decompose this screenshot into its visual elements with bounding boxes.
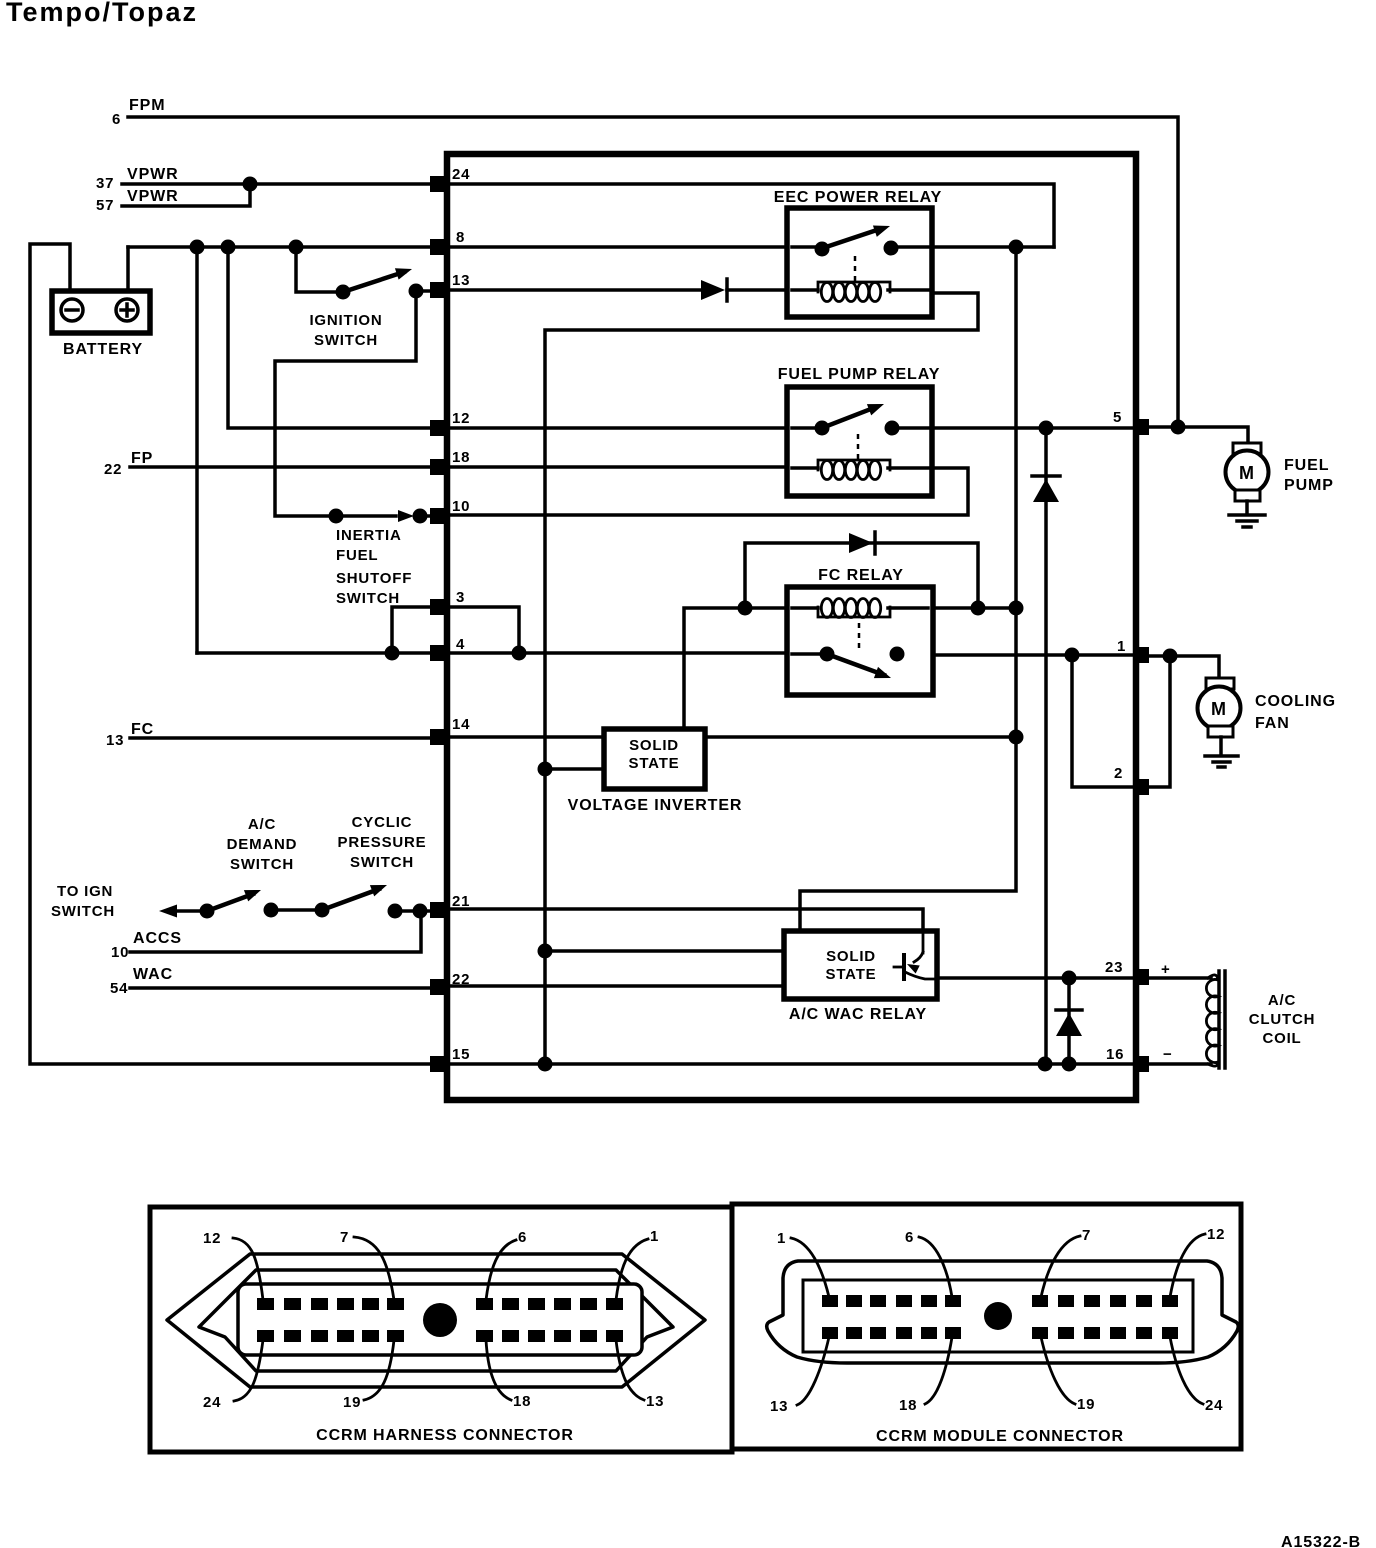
junction pin 3 right [512, 646, 527, 661]
svg-text:−: − [1163, 1046, 1173, 1063]
svg-text:A15322-B: A15322-B [1281, 1534, 1361, 1548]
svg-text:A/C: A/C [1268, 992, 1296, 1009]
wire EEC coil return loop down left bus [545, 293, 978, 1064]
contact inertia switch right [413, 509, 428, 524]
pin 13 marker [430, 282, 446, 298]
module bottom pin row 13..18 / 19..24 [822, 1327, 1178, 1339]
wire demand to cyclic switch link [271, 908, 322, 912]
harness connector outer shell [167, 1254, 705, 1387]
wire bus B switched power vertical [800, 247, 1016, 933]
wire WAC relay output to pin 23 [935, 976, 1134, 980]
harness callout pin 1 [616, 1228, 659, 1300]
svg-text:COOLING: COOLING [1255, 693, 1336, 710]
harness center post [423, 1303, 457, 1337]
junction clutch diode top [1062, 971, 1077, 986]
svg-text:ACCS: ACCS [133, 930, 182, 947]
svg-text:10: 10 [111, 944, 129, 961]
harness connector pin housing [238, 1284, 642, 1355]
svg-text:M: M [1239, 463, 1255, 483]
wire pins 3 jumper loop [392, 607, 519, 653]
svg-text:2: 2 [1114, 765, 1123, 782]
junction pin 1 outer jumper [1163, 649, 1178, 664]
svg-text:FC: FC [131, 721, 154, 738]
relay K2 fuel pump actuator link [857, 434, 860, 461]
diode D4 clutch coil flyback [1056, 1010, 1082, 1036]
label FUEL PUMP [1284, 457, 1334, 494]
junction ground row at pin5 diode [1038, 1057, 1053, 1072]
svg-text:8: 8 [456, 229, 465, 246]
relay K1 EEC actuator link [854, 256, 857, 283]
svg-text:57: 57 [96, 197, 114, 214]
svg-text:CYCLIC: CYCLIC [352, 814, 413, 831]
net label WAC 54 [110, 966, 173, 997]
net label FC 13 [106, 721, 154, 749]
label SOLID STATE WAC [826, 948, 877, 983]
label EEC POWER RELAY [774, 189, 943, 206]
label TO IGN SWITCH [51, 883, 115, 920]
svg-text:FAN: FAN [1255, 715, 1290, 732]
svg-text:SOLID: SOLID [629, 737, 679, 754]
relay box fuel pump relay [787, 387, 932, 496]
svg-text:SWITCH: SWITCH [51, 903, 115, 920]
contact fuel pump relay left [815, 421, 830, 436]
pin number 22 [452, 971, 470, 988]
module center post [984, 1302, 1012, 1330]
wire left bus stub to WAC relay [545, 949, 786, 953]
pin number 10 [452, 498, 470, 515]
pin 23 marker [1133, 969, 1149, 985]
relay K2 fuel pump switch contacts and arm [792, 398, 928, 428]
pin 21 marker [430, 902, 446, 918]
pin number 3 [456, 589, 465, 606]
junction pin 14 at bus B [1009, 730, 1024, 745]
relay K3 FC actuator link [858, 623, 861, 650]
wire pin 22 internal to WAC relay [450, 984, 786, 988]
svg-text:1: 1 [1117, 638, 1126, 655]
junction ACCS riser [413, 904, 428, 919]
junction FC diode right [971, 601, 986, 616]
svg-text:22: 22 [104, 461, 122, 478]
contact cyclic switch right [388, 904, 403, 919]
svg-text:15: 15 [452, 1046, 470, 1063]
wire pin 15 to pin 16 ground row internal [450, 1062, 1134, 1066]
diode D1 on pin 13 line [701, 279, 727, 301]
svg-text:VPWR: VPWR [127, 166, 179, 183]
pin 22 marker [430, 979, 446, 995]
svg-text:FUEL: FUEL [336, 547, 378, 564]
relay K1 EEC switch contacts and arm [792, 220, 928, 249]
wire cyclic switch to pin 21 [395, 909, 430, 913]
junction battery feed / pins 3-4 branch [190, 240, 205, 255]
label CCRM HARNESS CONNECTOR [316, 1427, 574, 1444]
TO IGN arrow [159, 905, 177, 918]
svg-text:16: 16 [1106, 1046, 1124, 1063]
svg-text:A/C WAC RELAY: A/C WAC RELAY [789, 1006, 927, 1023]
wire inertia switch gap lead [336, 514, 396, 518]
svg-text:37: 37 [96, 175, 114, 192]
junction FC diode left [738, 601, 753, 616]
ground cooling fan [1205, 756, 1238, 767]
pin number 21 [452, 893, 470, 910]
label COOLING FAN [1255, 693, 1336, 732]
wire VPWR pin 57 riser [122, 184, 250, 206]
junction FPM line at pin 5 [1171, 420, 1186, 435]
pin 10 marker [430, 508, 446, 524]
svg-text:24: 24 [1205, 1397, 1223, 1414]
svg-text:SWITCH: SWITCH [336, 590, 400, 607]
svg-text:SWITCH: SWITCH [314, 332, 378, 349]
pin number 1 [1117, 638, 1126, 655]
svg-text:M: M [1211, 699, 1227, 719]
wire voltage inverter left stub [545, 767, 605, 771]
contact demand switch right [264, 903, 279, 918]
wire ignition output down to inertia switch [275, 293, 416, 516]
pin 3 marker [430, 599, 446, 615]
wire FC relay diode loop [745, 543, 978, 609]
module callout pin 19 [1041, 1337, 1095, 1413]
contact FC relay left [820, 647, 835, 662]
harness callout pin 19 [343, 1340, 394, 1411]
wire pin 23 external to clutch coil [1148, 976, 1211, 980]
junction ignition branch [289, 240, 304, 255]
wire WAC pin 54 line to pin 22 [130, 986, 430, 990]
svg-text:SWITCH: SWITCH [350, 854, 414, 871]
svg-text:18: 18 [452, 449, 470, 466]
module callout pin 24 [1170, 1337, 1223, 1414]
svg-text:6: 6 [905, 1229, 914, 1246]
net label ACCS 10 [111, 930, 182, 961]
harness callout pin 13 [616, 1340, 664, 1410]
svg-text:STATE: STATE [826, 966, 877, 983]
harness top pin row 12..7 / 6..1 [257, 1298, 623, 1310]
diode D3 on pin 5 branch [1032, 476, 1060, 502]
module top pin row 1..6 / 7..12 [822, 1295, 1178, 1307]
junction ground row at left bus [538, 1057, 553, 1072]
harness bottom pin row 24..19 / 18..13 [257, 1330, 623, 1342]
contact EEC relay left [815, 242, 830, 257]
svg-text:13: 13 [646, 1393, 664, 1410]
contact ignition switch left [336, 285, 351, 300]
inertia switch arrow contact [398, 510, 414, 522]
wire feed down to pin 12 row [228, 247, 444, 428]
svg-text:54: 54 [110, 980, 128, 997]
junction diode branch pin 5 [1039, 421, 1054, 436]
svg-text:13: 13 [106, 732, 124, 749]
pin 2 marker [1133, 779, 1149, 795]
wire ignition switch output to pin 13 [416, 289, 430, 293]
label CYCLIC PRESSURE SWITCH [338, 814, 427, 871]
junction FC coil at bus B [1009, 601, 1024, 616]
wire battery negative loop to ground rail [30, 244, 430, 1064]
contact FC relay right [890, 647, 905, 662]
svg-text:VPWR: VPWR [127, 188, 179, 205]
svg-text:21: 21 [452, 893, 470, 910]
svg-text:12: 12 [452, 410, 470, 427]
label FUEL PUMP RELAY [778, 366, 941, 383]
contact fuel pump relay right [885, 421, 900, 436]
wire FC relay coil left to voltage inverter top [684, 608, 788, 731]
wire TO IGN lead to demand switch [175, 909, 207, 913]
svg-text:CCRM HARNESS CONNECTOR: CCRM HARNESS CONNECTOR [316, 1427, 574, 1444]
junction WAC stub [538, 944, 553, 959]
svg-text:CLUTCH: CLUTCH [1249, 1011, 1315, 1028]
net label FPM [112, 97, 165, 128]
relay K3 FC coil [792, 599, 928, 618]
label FC RELAY [818, 567, 904, 584]
label SOLID STATE inverter [629, 737, 680, 772]
svg-text:+: + [1161, 961, 1171, 978]
pin number 18 [452, 449, 470, 466]
svg-text:24: 24 [203, 1394, 221, 1411]
wire pin 8 internal row through EEC relay [450, 245, 1054, 249]
module callout pin 13 [770, 1337, 829, 1415]
pin number 13 [452, 272, 470, 289]
relay K1 EEC coil [792, 282, 928, 302]
svg-text:18: 18 [899, 1397, 917, 1414]
svg-text:COIL: COIL [1262, 1030, 1301, 1047]
contact cyclic switch left [315, 903, 330, 918]
label VOLTAGE INVERTER [568, 797, 743, 814]
pin number 5 [1113, 409, 1122, 426]
wire pin 24 internal loop to EEC output row [450, 184, 1054, 247]
ignition switch contacts and arm [343, 263, 414, 292]
module callout pin 7 [1041, 1227, 1091, 1297]
wire node A: feed down to pins 3/4 row [195, 247, 199, 653]
junction bus B top [1009, 240, 1024, 255]
solid state A/C WAC relay box [784, 931, 937, 999]
junction pin 1 inner jumper [1065, 648, 1080, 663]
svg-text:7: 7 [1082, 1227, 1091, 1244]
svg-text:SOLID: SOLID [826, 948, 876, 965]
wire pins 4 row to FC relay contact [197, 651, 827, 655]
net label VPWR 37 [96, 166, 179, 192]
svg-text:INERTIA: INERTIA [336, 527, 402, 544]
harness callout pin 24 [203, 1340, 263, 1411]
label BATTERY [63, 341, 143, 358]
wire VPWR pin 37 to pin 24 [122, 182, 444, 186]
wire FPM net: pin 6 to fuel pump [128, 117, 1178, 427]
svg-text:23: 23 [1105, 959, 1123, 976]
label INERTIA FUEL SHUTOFF SWITCH [336, 527, 412, 607]
wire ACCS pin 10 line riser to switch output [130, 911, 421, 952]
svg-text:VOLTAGE INVERTER: VOLTAGE INVERTER [568, 797, 743, 814]
pin 12 marker [430, 420, 446, 436]
pin 14 marker [430, 729, 446, 745]
svg-text:12: 12 [1207, 1226, 1225, 1243]
junction pin 3 left [385, 646, 400, 661]
svg-text:FUEL: FUEL [1284, 457, 1329, 474]
svg-text:19: 19 [343, 1394, 361, 1411]
svg-text:WAC: WAC [133, 966, 173, 983]
pin number 8 [456, 229, 465, 246]
svg-text:12: 12 [203, 1230, 221, 1247]
wire FC relay output row to pin 1 [897, 653, 1134, 657]
pin number 14 [452, 716, 470, 733]
pin 16 marker [1133, 1056, 1149, 1072]
pin 18 marker [430, 459, 446, 475]
pin number 23 [1105, 959, 1123, 976]
wire battery positive riser [126, 247, 130, 292]
svg-text:6: 6 [112, 111, 121, 128]
svg-text:FUEL PUMP RELAY: FUEL PUMP RELAY [778, 366, 941, 383]
wire FP relay coil return to pin 10 row [450, 468, 968, 515]
frame CCRM module connector [732, 1204, 1241, 1449]
label A/C CLUTCH COIL [1249, 992, 1315, 1047]
fuel pump motor [1226, 443, 1269, 514]
A/C demand switch [207, 884, 263, 911]
wire pin 1 to pin 2 inner jumper [1072, 655, 1134, 787]
wire FC relay coil right to bus B [932, 606, 1016, 610]
cooling fan motor [1198, 678, 1241, 755]
pin number 12 [452, 410, 470, 427]
pin number 4 [456, 636, 465, 653]
relay K2 fuel pump coil [792, 460, 928, 480]
label A/C WAC RELAY [789, 1006, 927, 1023]
svg-text:19: 19 [1077, 1396, 1095, 1413]
svg-text:6: 6 [518, 1229, 527, 1246]
junction inverter stub [538, 762, 553, 777]
wire pin 16 external to clutch coil [1148, 1062, 1211, 1066]
svg-text:PRESSURE: PRESSURE [338, 834, 427, 851]
contact ignition switch right [409, 284, 424, 299]
ground fuel pump [1229, 515, 1265, 527]
label A/C DEMAND SWITCH [227, 816, 298, 873]
CCRM module outline [447, 154, 1136, 1100]
junction VPWR [243, 177, 258, 192]
svg-text:4: 4 [456, 636, 465, 653]
wire pin 18 internal to FP relay coil [450, 465, 788, 469]
net label FP 22 [104, 450, 153, 478]
wire pin 14 internal row to bus B [450, 735, 1016, 739]
wire pin 1 to pin 2 outer jumper [1148, 656, 1170, 787]
svg-text:13: 13 [770, 1398, 788, 1415]
pin number 16 [1106, 1046, 1124, 1063]
polarity minus clutch [1163, 1046, 1173, 1063]
svg-text:13: 13 [452, 272, 470, 289]
svg-text:1: 1 [650, 1228, 659, 1245]
pin 5 marker [1133, 419, 1149, 435]
pin 24 marker [430, 176, 446, 192]
svg-text:18: 18 [513, 1393, 531, 1410]
svg-text:1: 1 [777, 1230, 786, 1247]
module callout pin 18 [899, 1337, 952, 1414]
diode D2 above FC relay [849, 532, 875, 554]
A/C clutch coil [1206, 971, 1225, 1068]
label IGNITION SWITCH [309, 312, 382, 349]
transistor Q1 inside WAC relay [894, 931, 935, 981]
svg-text:SWITCH: SWITCH [230, 856, 294, 873]
wire pin 5 external to fuel pump [1148, 427, 1248, 444]
wire clutch diode branch [1067, 978, 1071, 1064]
pin number 15 [452, 1046, 470, 1063]
contact inertia switch left [329, 509, 344, 524]
pin 4 marker [430, 645, 446, 661]
wire inertia switch to pin 10 [419, 514, 430, 518]
svg-text:10: 10 [452, 498, 470, 515]
harness callout pin 6 [486, 1229, 527, 1300]
svg-text:EEC POWER RELAY: EEC POWER RELAY [774, 189, 943, 206]
relay box EEC power relay [787, 208, 932, 317]
harness callout pin 12 [203, 1230, 263, 1300]
svg-text:5: 5 [1113, 409, 1122, 426]
svg-text:IGNITION: IGNITION [309, 312, 382, 329]
svg-text:FC RELAY: FC RELAY [818, 567, 904, 584]
svg-text:DEMAND: DEMAND [227, 836, 298, 853]
wire feed down to ignition switch [296, 247, 336, 292]
module connector outer shell [767, 1261, 1239, 1363]
pin number 24 [452, 166, 470, 183]
svg-text:FP: FP [131, 450, 153, 467]
cyclic pressure switch [322, 879, 389, 910]
svg-text:22: 22 [452, 971, 470, 988]
figure number A15322-B [1281, 1534, 1361, 1548]
harness callout pin 7 [340, 1229, 394, 1300]
svg-text:24: 24 [452, 166, 470, 183]
relay K3 FC switch contacts and arm [792, 654, 893, 684]
svg-text:BATTERY: BATTERY [63, 341, 143, 358]
battery [52, 291, 150, 333]
svg-text:14: 14 [452, 716, 470, 733]
pin 15 marker [430, 1056, 446, 1072]
pin 1 marker [1133, 647, 1149, 663]
solid state voltage inverter box [604, 729, 705, 789]
module callout pin 1 [777, 1230, 829, 1297]
contact EEC relay right [884, 241, 899, 256]
svg-text:SHUTOFF: SHUTOFF [336, 570, 412, 587]
svg-text:A/C: A/C [248, 816, 276, 833]
wire pin 21 internal to WAC relay [450, 909, 923, 955]
contact demand switch left [200, 904, 215, 919]
wire pin 12 row through fuel pump relay to pin 5 [450, 426, 1134, 430]
svg-text:FPM: FPM [129, 97, 165, 114]
net label VPWR 57 [96, 188, 179, 214]
wire diode branch at pin 5 [1044, 428, 1048, 1064]
junction pin 12 branch [221, 240, 236, 255]
svg-text:Tempo/Topaz: Tempo/Topaz [6, 0, 198, 27]
relay box FC relay [787, 587, 933, 695]
wire pin 1 external to cooling fan [1148, 656, 1219, 678]
svg-text:7: 7 [340, 1229, 349, 1246]
svg-text:PUMP: PUMP [1284, 477, 1334, 494]
svg-text:TO IGN: TO IGN [57, 883, 113, 900]
battery terminals [61, 299, 138, 321]
wire battery positive feed to pin 8 row [128, 245, 444, 249]
polarity plus clutch [1161, 961, 1171, 978]
svg-text:CCRM MODULE CONNECTOR: CCRM MODULE CONNECTOR [876, 1428, 1124, 1445]
frame CCRM harness connector [150, 1207, 732, 1452]
module callout pin 12 [1170, 1226, 1225, 1297]
label CCRM MODULE CONNECTOR [876, 1428, 1124, 1445]
pin number 2 [1114, 765, 1123, 782]
module connector pin housing [803, 1280, 1193, 1352]
harness callout pin 18 [486, 1340, 531, 1410]
pin 8 marker [430, 239, 446, 255]
wire pin 13 internal row with EEC coil feed [450, 288, 788, 292]
svg-text:3: 3 [456, 589, 465, 606]
svg-text:STATE: STATE [629, 755, 680, 772]
harness connector inner shell with wings [199, 1270, 673, 1371]
wire FC pin 13 label line to pin 14 [130, 736, 444, 740]
junction ground row at clutch diode [1062, 1057, 1077, 1072]
module callout pin 6 [905, 1229, 952, 1297]
wire FP pin 22 label line to pin 18 [130, 465, 444, 469]
